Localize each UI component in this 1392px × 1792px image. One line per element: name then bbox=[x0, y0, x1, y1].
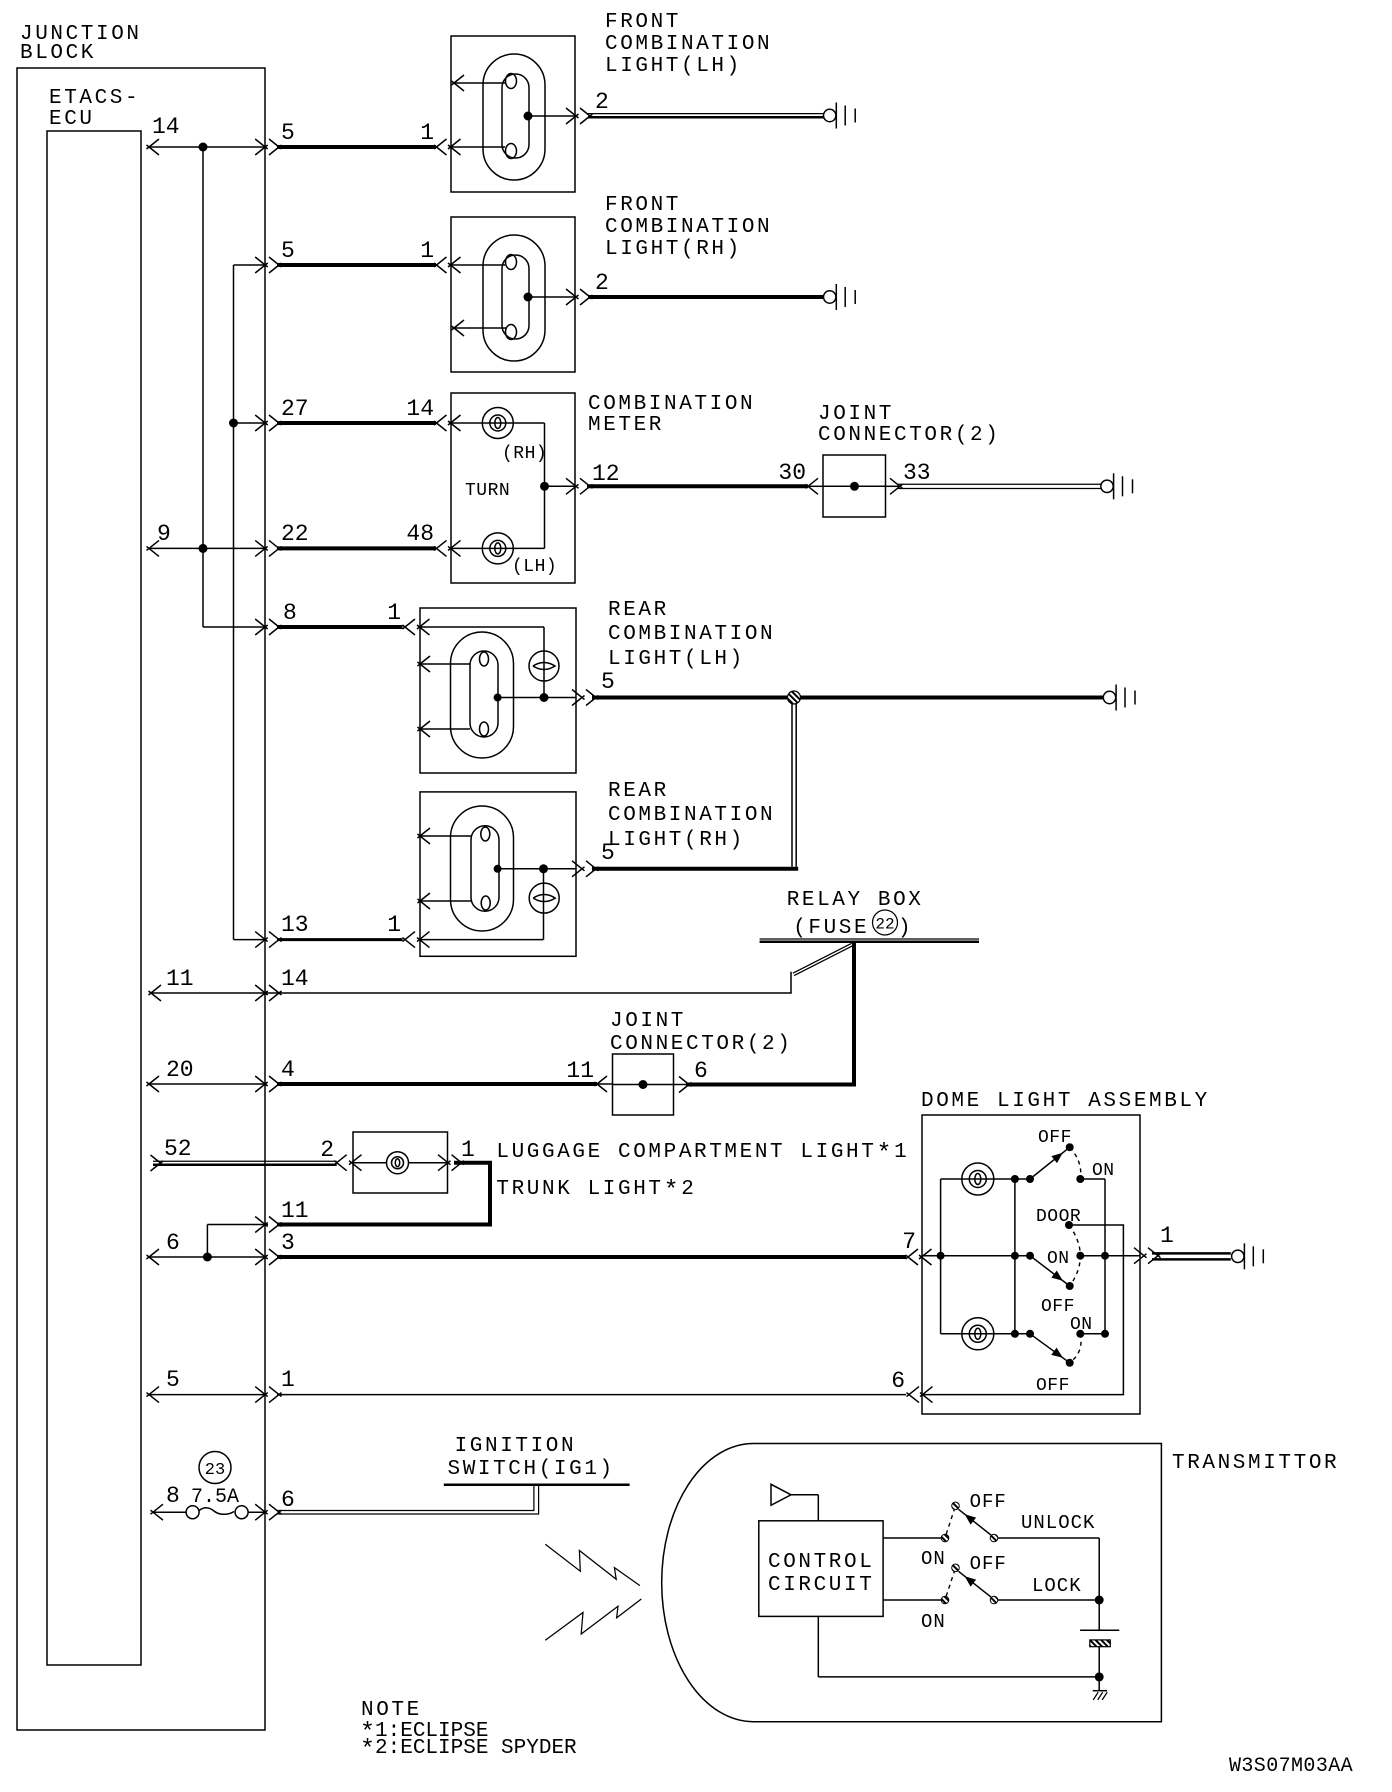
svg-text:1: 1 bbox=[461, 1137, 475, 1163]
svg-text:CIRCUIT: CIRCUIT bbox=[768, 1574, 874, 1597]
svg-text:TRANSMITTOR: TRANSMITTOR bbox=[1172, 1452, 1339, 1475]
svg-text:LIGHT(LH): LIGHT(LH) bbox=[608, 648, 745, 671]
svg-text:DOOR: DOOR bbox=[1036, 1207, 1081, 1227]
svg-text:14: 14 bbox=[281, 966, 309, 992]
svg-text:COMBINATION: COMBINATION bbox=[588, 393, 755, 416]
svg-text:8: 8 bbox=[283, 600, 297, 626]
svg-text:14: 14 bbox=[406, 396, 434, 422]
svg-text:DOME LIGHT ASSEMBLY: DOME LIGHT ASSEMBLY bbox=[921, 1090, 1210, 1113]
svg-text:COMBINATION: COMBINATION bbox=[605, 216, 772, 239]
svg-text:ON: ON bbox=[1047, 1249, 1070, 1269]
svg-text:5: 5 bbox=[601, 840, 615, 866]
svg-text:1: 1 bbox=[1160, 1223, 1174, 1249]
svg-text:1: 1 bbox=[387, 912, 401, 938]
svg-text:W3S07M03AA: W3S07M03AA bbox=[1229, 1755, 1353, 1778]
svg-text:ETACS-: ETACS- bbox=[49, 87, 140, 110]
svg-text:5: 5 bbox=[601, 669, 615, 695]
svg-text:30: 30 bbox=[778, 460, 806, 486]
svg-text:6: 6 bbox=[891, 1368, 905, 1394]
svg-text:1: 1 bbox=[281, 1367, 295, 1393]
svg-text:6: 6 bbox=[281, 1487, 295, 1513]
svg-text:22: 22 bbox=[875, 916, 894, 934]
svg-text:6: 6 bbox=[166, 1230, 180, 1256]
svg-text:SWITCH(IG1): SWITCH(IG1) bbox=[448, 1458, 615, 1481]
svg-text:8: 8 bbox=[166, 1483, 180, 1509]
svg-text:COMBINATION: COMBINATION bbox=[605, 33, 772, 56]
svg-text:LIGHT(RH): LIGHT(RH) bbox=[605, 238, 742, 261]
svg-text:CONNECTOR(2): CONNECTOR(2) bbox=[818, 424, 1000, 447]
svg-text:*2:ECLIPSE SPYDER: *2:ECLIPSE SPYDER bbox=[360, 1735, 577, 1764]
svg-text:REAR: REAR bbox=[608, 599, 669, 622]
svg-text:5: 5 bbox=[281, 120, 295, 146]
svg-text:9: 9 bbox=[157, 521, 171, 547]
svg-text:LUGGAGE COMPARTMENT LIGHT*1: LUGGAGE COMPARTMENT LIGHT*1 bbox=[496, 1139, 909, 1168]
svg-text:7: 7 bbox=[902, 1229, 916, 1255]
svg-text:52: 52 bbox=[164, 1136, 192, 1162]
svg-text:OFF: OFF bbox=[1036, 1376, 1070, 1396]
svg-text:5: 5 bbox=[281, 238, 295, 264]
svg-text:6: 6 bbox=[694, 1058, 708, 1084]
svg-text:13: 13 bbox=[281, 912, 309, 938]
svg-text:27: 27 bbox=[281, 396, 309, 422]
svg-text:2: 2 bbox=[595, 270, 609, 296]
svg-text:2: 2 bbox=[320, 1137, 334, 1163]
svg-text:REAR: REAR bbox=[608, 780, 669, 803]
svg-text:ON: ON bbox=[921, 1548, 946, 1570]
svg-text:(LH): (LH) bbox=[512, 557, 557, 577]
svg-text:14: 14 bbox=[152, 114, 180, 140]
svg-text:CONNECTOR(2): CONNECTOR(2) bbox=[610, 1033, 792, 1056]
svg-text:1: 1 bbox=[387, 600, 401, 626]
svg-text:IGNITION: IGNITION bbox=[455, 1435, 577, 1458]
svg-text:ON: ON bbox=[1092, 1161, 1115, 1181]
svg-text:): ) bbox=[898, 917, 913, 940]
svg-text:22: 22 bbox=[281, 521, 309, 547]
svg-text:OFF: OFF bbox=[970, 1553, 1007, 1575]
svg-text:48: 48 bbox=[406, 521, 434, 547]
svg-text:BLOCK: BLOCK bbox=[20, 42, 96, 65]
svg-text:LIGHT(LH): LIGHT(LH) bbox=[605, 55, 742, 78]
svg-text:12: 12 bbox=[592, 461, 620, 487]
svg-text:2: 2 bbox=[595, 89, 609, 115]
svg-text:23: 23 bbox=[205, 1461, 225, 1480]
svg-text:LOCK: LOCK bbox=[1032, 1575, 1082, 1597]
svg-text:LIGHT(RH): LIGHT(RH) bbox=[608, 829, 745, 852]
svg-text:(FUSE: (FUSE bbox=[793, 917, 869, 940]
svg-text:COMBINATION: COMBINATION bbox=[608, 623, 775, 646]
svg-text:ECU: ECU bbox=[49, 108, 95, 131]
svg-text:20: 20 bbox=[166, 1057, 194, 1083]
svg-text:3: 3 bbox=[281, 1230, 295, 1256]
svg-text:11: 11 bbox=[166, 966, 194, 992]
svg-text:5: 5 bbox=[166, 1367, 180, 1393]
svg-text:OFF: OFF bbox=[1041, 1297, 1075, 1317]
svg-text:METER: METER bbox=[588, 414, 664, 437]
svg-text:COMBINATION: COMBINATION bbox=[608, 804, 775, 827]
svg-text:TRUNK LIGHT*2: TRUNK LIGHT*2 bbox=[496, 1176, 696, 1205]
svg-text:4: 4 bbox=[281, 1057, 295, 1083]
svg-text:1: 1 bbox=[420, 238, 434, 264]
svg-text:FRONT: FRONT bbox=[605, 11, 681, 34]
svg-text:11: 11 bbox=[281, 1198, 309, 1224]
svg-text:CONTROL: CONTROL bbox=[768, 1551, 874, 1574]
svg-text:UNLOCK: UNLOCK bbox=[1021, 1512, 1095, 1534]
svg-text:OFF: OFF bbox=[1038, 1128, 1072, 1148]
svg-text:33: 33 bbox=[903, 460, 931, 486]
svg-text:RELAY BOX: RELAY BOX bbox=[787, 889, 924, 912]
svg-text:OFF: OFF bbox=[970, 1491, 1007, 1513]
svg-text:(RH): (RH) bbox=[502, 444, 547, 464]
svg-text:JOINT: JOINT bbox=[610, 1010, 686, 1033]
svg-text:1: 1 bbox=[420, 120, 434, 146]
svg-text:TURN: TURN bbox=[465, 481, 510, 501]
svg-text:JOINT: JOINT bbox=[818, 403, 894, 426]
svg-text:ON: ON bbox=[921, 1611, 946, 1633]
svg-text:11: 11 bbox=[566, 1058, 594, 1084]
svg-text:FRONT: FRONT bbox=[605, 194, 681, 217]
svg-text:7.5A: 7.5A bbox=[191, 1486, 239, 1509]
svg-text:ON: ON bbox=[1070, 1315, 1093, 1335]
